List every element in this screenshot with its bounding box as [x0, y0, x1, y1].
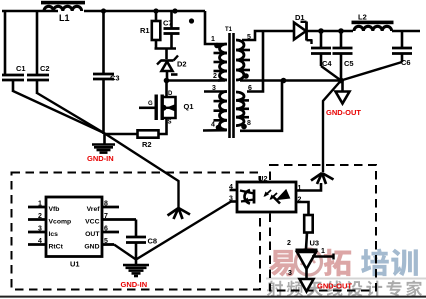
svg-text:Vref: Vref [87, 206, 101, 213]
svg-text:2: 2 [287, 240, 291, 247]
wire GND pin5 diagonal [114, 245, 136, 260]
capacitor C7 [163, 11, 194, 49]
resistor R3 [304, 215, 313, 233]
wire U2 pin2 to R3 [296, 202, 309, 215]
svg-text:3: 3 [229, 196, 233, 203]
resistor R2 [138, 130, 159, 149]
svg-text:3: 3 [288, 270, 292, 277]
capacitor C6 [392, 31, 412, 67]
ground GND-IN at C8 [123, 260, 149, 277]
watermark row1 char xun [391, 249, 418, 276]
capacitor C3 [93, 11, 120, 134]
wire tap down to pin6 [247, 31, 263, 92]
wire join to D2 [165, 49, 168, 60]
resistor R1 [140, 11, 160, 49]
svg-text:D2: D2 [177, 60, 187, 69]
svg-text:5: 5 [104, 238, 108, 245]
inductor L2 [352, 13, 394, 32]
wire C1 diagonal [13, 91, 104, 133]
svg-text:Vfb: Vfb [49, 206, 60, 213]
svg-text:G: G [148, 101, 153, 107]
gnd arrow GND-OUT top [336, 81, 350, 104]
svg-text:C5: C5 [344, 59, 354, 68]
wire diagonal to bundle [104, 133, 179, 208]
watermark row2 text [267, 280, 422, 296]
page divider line bottom [0, 296, 426, 298]
capacitor C4 [311, 31, 332, 68]
transformer T1 core [225, 27, 234, 138]
node dot top bus at C7 [172, 8, 177, 13]
wire source [159, 118, 167, 134]
transistor Q1 [139, 91, 194, 126]
svg-text:L2: L2 [358, 13, 367, 22]
svg-text:1: 1 [38, 201, 42, 208]
watermark underline [266, 278, 426, 280]
svg-text:7: 7 [104, 213, 108, 220]
svg-text:U1: U1 [70, 260, 80, 269]
ground GND-IN main [92, 134, 115, 153]
svg-text:T1: T1 [225, 27, 233, 33]
svg-text:C7: C7 [163, 19, 173, 28]
IC U1 [28, 197, 136, 269]
inductor L1 [41, 1, 85, 23]
svg-text:R1: R1 [140, 26, 150, 35]
node dot top bus at R1 [153, 8, 158, 13]
svg-text:C8: C8 [148, 237, 158, 246]
wire pin8 to out gnd bus [240, 81, 282, 131]
svg-text:8: 8 [104, 201, 108, 208]
svg-text:C3: C3 [110, 74, 120, 83]
svg-text:3: 3 [38, 226, 42, 233]
svg-text:C1: C1 [16, 64, 26, 73]
wire top bus right of L1 [84, 10, 205, 13]
svg-text:RtCt: RtCt [49, 244, 64, 251]
node dot top bus at C3 [101, 8, 106, 13]
wire R1/C7 join bar [155, 47, 177, 50]
svg-text:GND-IN: GND-IN [87, 154, 114, 163]
svg-text:GND-OUT: GND-OUT [317, 282, 352, 291]
dashed box outer [12, 173, 261, 290]
capacitor C5 [333, 31, 354, 81]
svg-text:VCC: VCC [85, 219, 99, 226]
wire D1 to L2 [307, 30, 354, 33]
optocoupler U2 [229, 174, 302, 212]
svg-text:C2: C2 [40, 64, 50, 73]
T1 secondary lower winding [236, 85, 252, 129]
svg-text:4: 4 [38, 238, 42, 245]
wire pin5 to D1 [242, 31, 294, 40]
wire pin2 curl [218, 79, 227, 82]
svg-text:1: 1 [321, 248, 325, 255]
wire C4 diag to node [321, 66, 341, 81]
watermark row1 char tuo [324, 249, 352, 277]
node dot out gnd [338, 78, 344, 84]
svg-text:OUT: OUT [85, 231, 100, 238]
capacitor C1 [2, 11, 26, 92]
wire diagonal to U2 pin3 [136, 202, 231, 260]
svg-text:6: 6 [248, 85, 252, 92]
svg-text:S: S [168, 120, 172, 126]
svg-text:3: 3 [212, 85, 216, 92]
T1 secondary upper winding [236, 34, 251, 80]
svg-text:2: 2 [213, 73, 217, 80]
svg-text:Vcomp: Vcomp [49, 219, 72, 226]
wire top bus [2, 10, 58, 13]
node dot D2 anode junction [164, 78, 170, 84]
svg-text:Ics: Ics [49, 231, 59, 238]
wire U2 pin1 to crowfoot [296, 183, 321, 191]
svg-text:U2: U2 [258, 174, 268, 183]
svg-text:L1: L1 [59, 13, 70, 23]
zener D2 [157, 56, 187, 82]
svg-text:GND: GND [84, 244, 99, 251]
svg-text:8: 8 [247, 120, 251, 127]
svg-text:2: 2 [38, 213, 42, 220]
wire C2 diagonal [37, 93, 104, 133]
wire node to right crowfoot [323, 81, 341, 173]
wire to T1 pin1 [205, 11, 226, 44]
node dot C4 [318, 28, 324, 34]
svg-text:1: 1 [211, 36, 215, 43]
capacitor C8 [126, 237, 157, 260]
svg-text:GND-IN: GND-IN [121, 280, 148, 289]
wire R2 to ground node [104, 133, 138, 136]
svg-text:6: 6 [104, 226, 108, 233]
node dot pin8 bus [281, 78, 287, 84]
watermark row1 char yi [269, 250, 296, 277]
wire secondary gnd bus [240, 79, 341, 82]
wire drain [165, 81, 168, 98]
svg-text:4: 4 [229, 184, 233, 191]
svg-text:R2: R2 [142, 140, 152, 149]
bundle crowfoot left [168, 208, 191, 219]
svg-text:D: D [168, 91, 173, 97]
wire VCC to C8 [135, 220, 138, 237]
diode D1 [294, 13, 313, 44]
dashed box inner [270, 165, 376, 291]
shunt regulator U3 [287, 239, 334, 280]
svg-text:U3: U3 [310, 239, 320, 248]
gnd arrow GND-OUT bottom [300, 279, 314, 292]
wire L2 to out [392, 30, 420, 33]
wire R3 to U3 [306, 233, 307, 250]
capacitor C2 [27, 11, 50, 94]
watermark row1 char pei [361, 249, 389, 277]
T1 primary upper winding [211, 36, 227, 80]
svg-text:4: 4 [211, 122, 215, 129]
svg-text:C6: C6 [401, 58, 411, 67]
node dot C5 [338, 28, 344, 34]
svg-text:Q1: Q1 [184, 102, 194, 111]
svg-text:GND-OUT: GND-OUT [326, 108, 361, 117]
wire pin4 [203, 129, 227, 132]
watermark logo circle [296, 249, 322, 275]
T1 primary lower winding [204, 85, 227, 130]
wire to transformer pin2 [167, 79, 226, 82]
wire C6 diag to node [341, 62, 402, 81]
bundle crowfoot right [311, 173, 334, 184]
